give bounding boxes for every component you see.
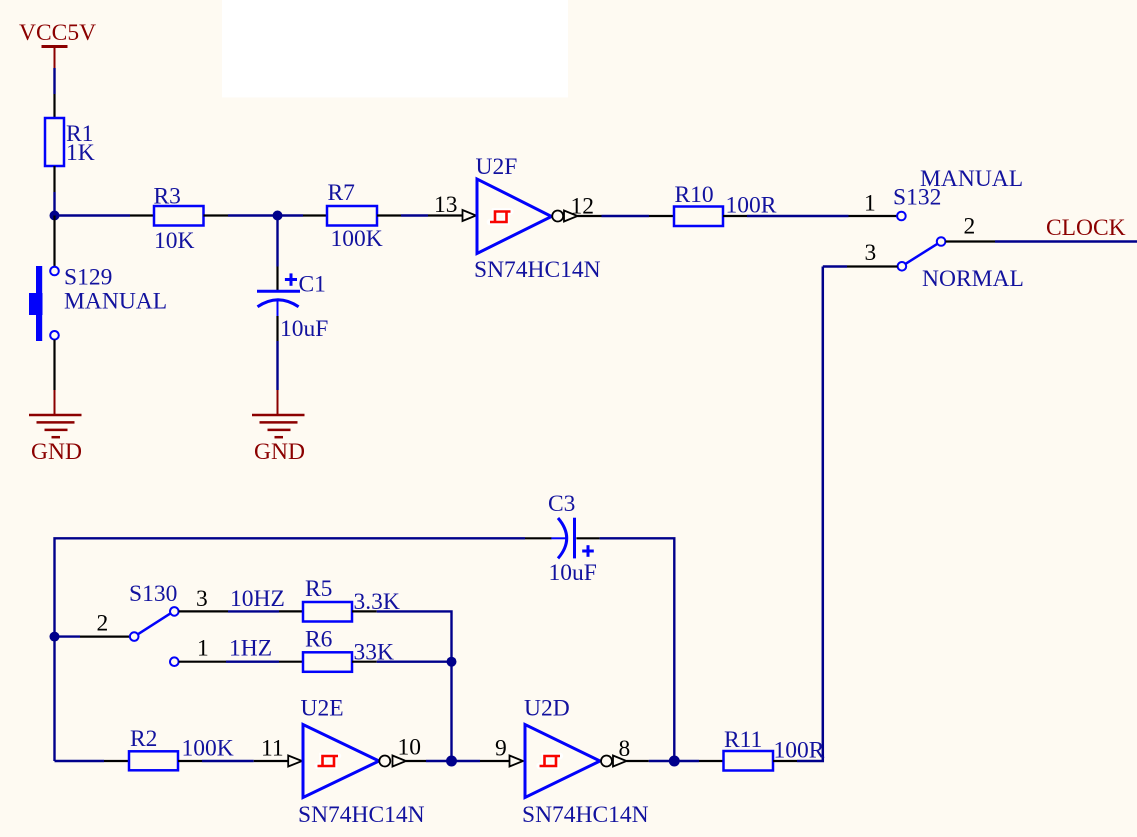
svg-text:11: 11 — [261, 736, 284, 762]
resistor R5 3.3K — [279, 576, 400, 622]
svg-text:S130: S130 — [129, 581, 177, 607]
wire right rail down to R11 — [797, 267, 823, 762]
op-amp U2D inverter SN74HC14N — [522, 696, 649, 829]
svg-text:MANUAL: MANUAL — [64, 289, 167, 315]
svg-text:9: 9 — [495, 736, 507, 762]
pin 8 — [613, 736, 649, 767]
pin 9 — [480, 736, 523, 767]
wire S132 pin3 corner — [823, 265, 847, 267]
capacitor C3 10uF — [525, 491, 600, 586]
capacitor C1 10uF — [257, 216, 328, 343]
wire bottom left — [55, 760, 105, 762]
svg-text:100R: 100R — [726, 193, 777, 219]
svg-text:10uF: 10uF — [280, 316, 328, 342]
svg-text:10K: 10K — [154, 228, 195, 254]
svg-text:U2F: U2F — [476, 154, 518, 180]
svg-text:3: 3 — [196, 586, 208, 612]
svg-text:10HZ: 10HZ — [230, 586, 285, 612]
svg-text:NORMAL: NORMAL — [922, 266, 1024, 292]
ground GND (left) — [29, 390, 82, 465]
resistor R10 100R — [649, 182, 777, 226]
svg-text:1K: 1K — [66, 140, 95, 166]
power port VCC5V — [19, 20, 96, 68]
wire R3 to node B — [228, 214, 278, 216]
svg-text:U2E: U2E — [301, 696, 344, 722]
wire to R6 — [226, 661, 279, 663]
node C junction (left rail / S130) — [50, 632, 60, 642]
resistor R6 33K — [279, 627, 394, 672]
wire R1 to node A — [53, 192, 55, 216]
pin 11 — [254, 736, 302, 767]
resistor R7 100K — [303, 180, 401, 252]
wire R2 to U2E pin 11 — [202, 760, 254, 762]
node D junction — [447, 657, 457, 667]
switch S132 pin 2 — [937, 214, 995, 246]
pin 10 — [393, 735, 427, 767]
svg-text:R3: R3 — [154, 184, 181, 210]
svg-text:1HZ: 1HZ — [229, 636, 272, 662]
wire R6 to node D — [377, 661, 452, 663]
switch S130 pin 1 — [170, 636, 226, 667]
svg-text:3: 3 — [865, 240, 877, 266]
svg-text:C3: C3 — [548, 491, 575, 517]
ground GND (under C1) — [252, 390, 305, 465]
switch S132 pin 3 — [847, 240, 906, 271]
wire U2E out to node E — [426, 760, 480, 762]
svg-text:VCC5V: VCC5V — [19, 20, 96, 46]
svg-text:8: 8 — [619, 736, 631, 762]
svg-text:MANUAL: MANUAL — [920, 166, 1023, 192]
svg-text:R11: R11 — [724, 727, 762, 753]
resistor R11 100R — [699, 727, 825, 771]
svg-text:CLOCK: CLOCK — [1046, 215, 1126, 241]
wire R7 to U2F pin 13 — [401, 214, 428, 216]
svg-text:R2: R2 — [130, 726, 157, 752]
wire node B to R7 — [278, 214, 304, 216]
svg-text:12: 12 — [571, 194, 595, 220]
svg-text:GND: GND — [31, 439, 82, 465]
wire VCC5V to R1 — [53, 68, 55, 94]
wire node C to S130 pin 2 — [55, 635, 81, 637]
svg-text:SN74HC14N: SN74HC14N — [298, 802, 425, 828]
svg-text:R7: R7 — [328, 180, 356, 206]
svg-text:C1: C1 — [299, 272, 326, 298]
switch S130 pin 2 — [80, 611, 139, 641]
wire to R5 — [228, 610, 279, 612]
switch S130 blade — [138, 614, 170, 635]
switch S129 MANUAL pushbutton — [29, 216, 167, 391]
svg-text:100R: 100R — [774, 738, 825, 764]
node F junction — [669, 756, 680, 767]
svg-text:GND: GND — [254, 439, 305, 465]
node B junction — [273, 211, 283, 221]
svg-text:U2D: U2D — [524, 696, 570, 722]
svg-text:1: 1 — [197, 636, 209, 662]
switch S132 pin 1 — [849, 191, 906, 221]
svg-text:R6: R6 — [305, 627, 333, 653]
svg-text:S129: S129 — [64, 265, 112, 291]
svg-text:SN74HC14N: SN74HC14N — [522, 802, 649, 828]
svg-text:10uF: 10uF — [549, 560, 597, 586]
wire node A to R3 — [55, 214, 131, 216]
pin 12 — [564, 194, 602, 222]
node E junction — [446, 756, 457, 767]
white title-block mask — [222, 0, 568, 98]
resistor R1 1K — [45, 94, 95, 192]
wire C3 to right rail — [600, 538, 675, 761]
resistor R3 10K — [130, 184, 228, 255]
wire top feedback rail — [55, 538, 526, 761]
svg-text:SN74HC14N: SN74HC14N — [474, 257, 601, 283]
resistor R2 100K — [104, 726, 234, 770]
svg-text:R5: R5 — [305, 576, 332, 602]
svg-text:R10: R10 — [675, 182, 714, 208]
svg-text:2: 2 — [964, 214, 976, 240]
wire R5 to vertical join — [377, 611, 452, 761]
pin 13 — [428, 192, 476, 221]
wire R10 to S132 pin 1 — [747, 215, 849, 217]
wire U2F to R10 — [602, 215, 650, 217]
svg-text:10: 10 — [398, 735, 422, 761]
switch S132 labels — [893, 166, 1024, 292]
op-amp U2F inverter SN74HC14N — [474, 154, 601, 283]
svg-text:100K: 100K — [331, 226, 383, 252]
svg-text:1: 1 — [864, 191, 876, 217]
wire U2D out to node F — [649, 760, 699, 762]
wire CLOCK net — [995, 240, 1137, 242]
svg-text:100K: 100K — [182, 736, 234, 762]
wire C1 to ground — [276, 341, 278, 390]
svg-text:2: 2 — [97, 611, 109, 637]
svg-text:13: 13 — [434, 192, 458, 218]
switch S130 pin 3 — [170, 586, 228, 616]
node A junction — [50, 211, 60, 221]
op-amp U2E inverter SN74HC14N — [298, 696, 425, 829]
switch S132 blade — [906, 244, 937, 264]
